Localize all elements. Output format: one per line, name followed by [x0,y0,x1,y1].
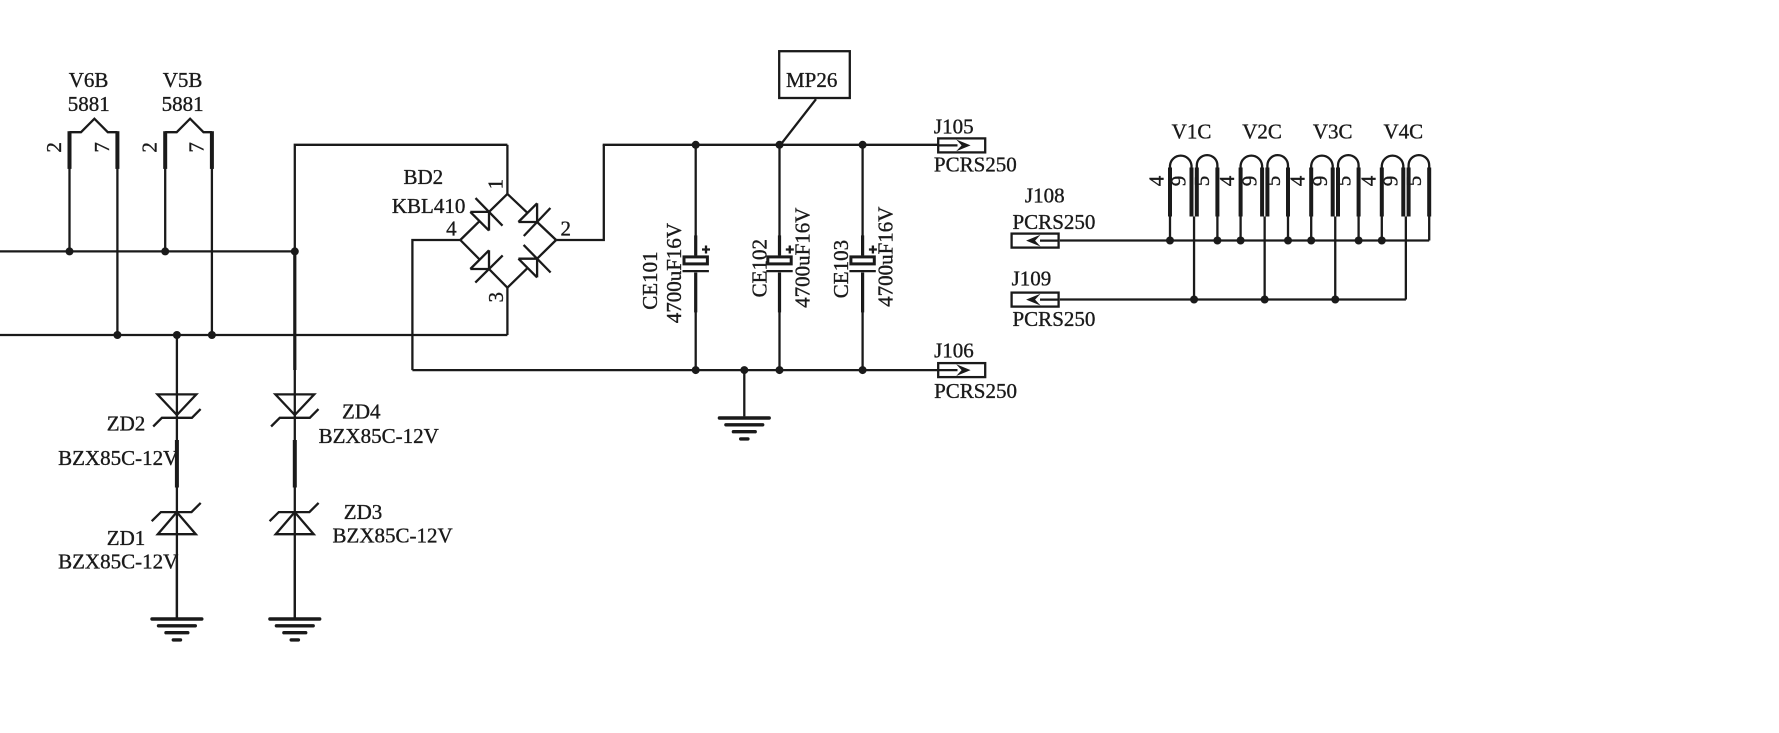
svg-text:4700uF16V: 4700uF16V [873,207,897,307]
svg-text:3: 3 [484,292,508,303]
heater connector V2C [1241,155,1288,299]
test point MP26 [779,51,850,145]
junction dot J109 rail / V3C pin9 [1331,296,1339,304]
svg-text:7: 7 [90,142,114,153]
wire J109 rail [1060,298,1406,300]
junction dot top rail / CE102, MP26 [776,141,784,149]
svg-text:5: 5 [1190,176,1214,187]
svg-text:4: 4 [1356,175,1380,186]
wire main vertical to bridge pin1 [295,145,508,252]
connector J105 [938,138,985,152]
ground below ZD3 [270,619,320,640]
svg-text:5881: 5881 [68,92,110,116]
heater connector V3C [1311,155,1358,299]
svg-text:PCRS250: PCRS250 [1013,307,1096,331]
svg-text:ZD3: ZD3 [344,500,383,524]
svg-text:CE101: CE101 [638,251,662,309]
capacitor CE101 [683,145,711,370]
svg-text:4700uF16V: 4700uF16V [791,208,815,308]
junction dot top rail / CE101 [692,141,700,149]
junction dot lower rail / V6B pin7 [113,331,121,339]
zener diode ZD4 [271,394,318,426]
svg-text:4: 4 [446,217,457,241]
wire J108 rail [1060,239,1429,241]
svg-text:PCRS250: PCRS250 [1013,210,1096,234]
svg-text:ZD1: ZD1 [107,526,146,550]
svg-text:4700uF16V: 4700uF16V [662,223,686,323]
wire top rail (positive) to J105 [603,144,939,146]
junction dot bottom rail / CE101 [692,366,700,374]
svg-text:9: 9 [1308,176,1332,187]
svg-text:BZX85C-12V: BZX85C-12V [333,524,453,548]
svg-text:4: 4 [1215,175,1239,186]
wire lower AC rail [0,334,507,336]
svg-text:BD2: BD2 [403,165,443,189]
connector J109 [1012,293,1059,307]
junction dot J108 rail / V3C pin4 [1307,237,1315,245]
svg-text:MP26: MP26 [786,68,837,92]
junction dot J108 rail / V2C pin5 [1284,237,1292,245]
junction dot J109 rail / V2C pin9 [1261,296,1269,304]
junction dot J108 rail / V4C pin4 [1378,237,1386,245]
connector J108 [1012,234,1059,248]
tube heater V5B [165,119,212,335]
ground below ZD1 [152,619,202,640]
svg-text:KBL410: KBL410 [392,194,466,218]
junction dot J109 rail / V1C pin9 [1190,296,1198,304]
junction dot J108 rail / V1C pin5 [1213,237,1221,245]
svg-text:2: 2 [42,142,66,153]
wire bridge pin4 to bottom rail [412,240,460,370]
svg-text:5: 5 [1331,176,1355,187]
junction dot top rail / CE103 [859,141,867,149]
wire ZD1 to ground [176,560,178,618]
svg-text:V5B: V5B [163,68,203,92]
wire bottom rail (negative) [412,369,938,371]
junction dot upper rail / V6B pin2 [66,247,74,255]
svg-text:9: 9 [1237,176,1261,187]
junction dot upper rail / V5B pin2 [161,247,169,255]
junction dot bottom rail / ground [740,366,748,374]
svg-text:PCRS250: PCRS250 [934,379,1017,403]
svg-text:V1C: V1C [1172,119,1212,143]
svg-text:J106: J106 [934,339,974,363]
svg-text:BZX85C-12V: BZX85C-12V [58,549,178,573]
zener diode ZD3 [270,440,319,534]
svg-text:V3C: V3C [1313,119,1353,143]
junction dot J108 rail / V2C pin4 [1237,237,1245,245]
diode edge 3-2 of BD2 [507,240,556,288]
svg-text:CE103: CE103 [829,240,853,298]
junction dot bottom rail / CE102 [776,366,784,374]
wire bridge pin2 up to top rail [556,145,604,240]
bridge rectifier BD2 [460,145,556,288]
wire bridge pin3 to lower AC rail [506,288,508,335]
zener diode ZD2 [153,335,200,618]
svg-text:V2C: V2C [1242,119,1282,143]
tube heater V6B [70,119,118,335]
svg-text:2: 2 [561,217,572,241]
capacitor CE103 [849,145,877,370]
svg-text:2: 2 [138,142,162,153]
svg-text:CE102: CE102 [748,239,772,297]
svg-text:J108: J108 [1025,183,1065,207]
svg-text:BZX85C-12V: BZX85C-12V [319,424,439,448]
svg-text:1: 1 [483,179,507,190]
svg-text:J109: J109 [1012,266,1052,290]
wire thick segment upper rail to ZD4 chain [293,251,296,370]
svg-text:7: 7 [184,142,208,153]
ground below capacitors [719,370,769,439]
svg-text:J105: J105 [934,114,974,138]
svg-text:4: 4 [1145,175,1169,186]
junction dot lower rail / ZD2 chain [173,331,181,339]
svg-text:5: 5 [1402,176,1426,187]
diode edge 4-1 of BD2 [460,194,507,240]
svg-text:ZD4: ZD4 [342,399,381,423]
svg-text:9: 9 [1379,176,1403,187]
svg-text:5881: 5881 [162,92,204,116]
wire bridge pin1 drop [506,145,508,194]
capacitor CE102 [766,145,794,370]
heater connector V1C [1170,155,1217,299]
diode edge 4-3 of BD2 [460,240,507,288]
junction dot J108 rail / V1C pin4 [1166,237,1174,245]
junction dot lower rail / V5B pin7 [208,331,216,339]
svg-text:BZX85C-12V: BZX85C-12V [58,446,178,470]
connector J106 [938,363,985,377]
junction dot J108 rail / V3C pin5 [1355,237,1363,245]
svg-text:V6B: V6B [69,68,109,92]
wire ZD3 to ground [294,560,296,618]
svg-text:9: 9 [1167,176,1191,187]
wire upper AC rail [0,250,295,252]
zener diode ZD1 [152,440,201,534]
diode edge 1-2 of BD2 [507,194,556,240]
junction dot upper rail / main vertical [291,247,299,255]
junction dot bottom rail / CE103 [859,366,867,374]
svg-text:PCRS250: PCRS250 [934,152,1017,176]
svg-text:4: 4 [1286,175,1310,186]
wire ZD4 chain upper thin [294,369,296,618]
svg-text:5: 5 [1261,176,1285,187]
svg-text:V4C: V4C [1383,119,1423,143]
heater connector V4C [1382,155,1429,299]
svg-text:ZD2: ZD2 [107,411,146,435]
